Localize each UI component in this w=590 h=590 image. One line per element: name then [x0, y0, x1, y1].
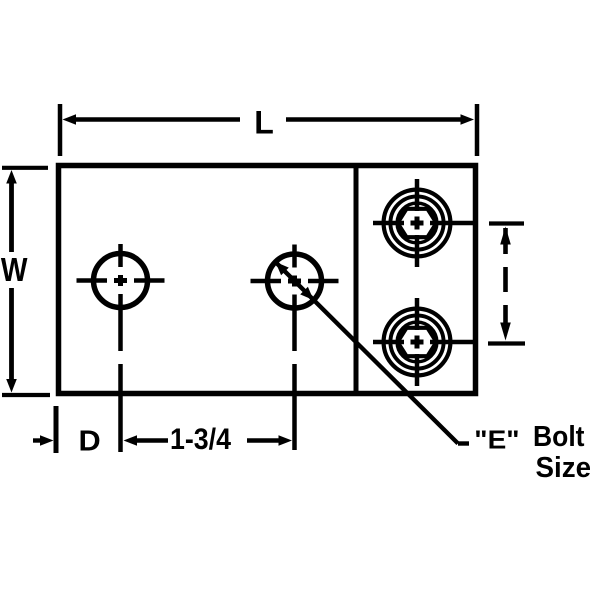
svg-text:L: L: [254, 104, 274, 140]
svg-text:Size: Size: [536, 452, 590, 484]
svg-text:Bolt: Bolt: [533, 421, 585, 453]
svg-text:D: D: [79, 426, 101, 458]
svg-text:1-3/4: 1-3/4: [170, 423, 231, 456]
svg-text:W: W: [1, 251, 28, 288]
svg-text:"E": "E": [474, 424, 519, 454]
